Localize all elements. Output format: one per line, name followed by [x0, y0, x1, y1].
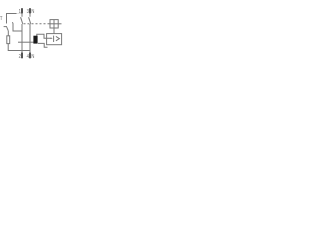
svg-text:3: 3 — [27, 9, 29, 16]
svg-text:4: 4 — [27, 54, 29, 61]
svg-text:N: N — [31, 9, 34, 16]
svg-text:N: N — [31, 54, 34, 61]
svg-text:1: 1 — [19, 9, 21, 16]
svg-text:2: 2 — [19, 54, 21, 61]
